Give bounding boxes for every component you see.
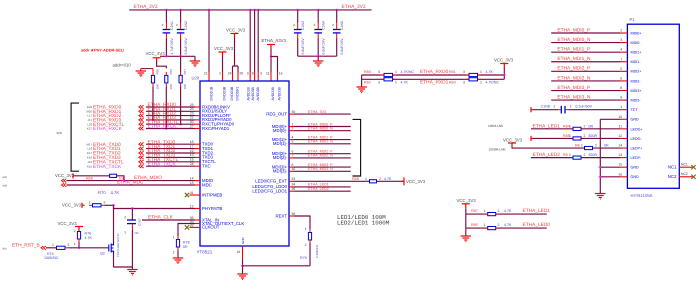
svg-text:11: 11 [619, 124, 623, 128]
pin 5 stub (MDI[1]-) [289, 143, 294, 145]
wire C1N3 bottom [297, 39, 299, 57]
svg-text:3: 3 [620, 38, 622, 42]
node R68-MDIO junction [123, 179, 125, 181]
svg-text:1: 1 [74, 242, 76, 246]
wire R65 to RXD3 row [152, 86, 154, 120]
pin 13 stub (MDC) [195, 184, 200, 186]
power VCC_3V3 T (DVDDR) [219, 52, 227, 57]
svg-text:2: 2 [124, 216, 126, 220]
power VCC_3V3 T (DVDD3B) [231, 34, 239, 39]
wire VCC to DVDDR pin [222, 57, 224, 73]
node strap row1 junction [503, 74, 505, 76]
svg-text:R65: R65 [156, 69, 160, 75]
resistor R88 4.7K [370, 180, 377, 183]
svg-text:VCC_3V3: VCC_3V3 [62, 202, 82, 207]
svg-text:16: 16 [279, 72, 283, 76]
svg-text:3: 3 [378, 70, 380, 74]
wire C1N1 bottom [165, 39, 167, 57]
svg-text:ETHA_MDI3_N: ETHA_MDI3_N [557, 95, 591, 101]
svg-text:ETHA_MDI3_P: ETHA_MDI3_P [557, 85, 590, 91]
svg-text:MDI0+: MDI0+ [631, 31, 642, 35]
svg-text:11: 11 [266, 72, 270, 76]
svg-text:AVDD0B: AVDD0B [271, 86, 275, 100]
node rail-C1N5 junction [336, 9, 338, 11]
wire C1N1 drop [165, 10, 167, 23]
wire ETHA_3V3 top rail [129, 9, 371, 11]
svg-text:ETHA_MDI0_N: ETHA_MDI0_N [557, 37, 591, 43]
pin 14 stub (MDIO) [195, 180, 200, 182]
svg-text:C1N3: C1N3 [301, 21, 305, 30]
pin 33 stub (LED0/CFG_EXT) [289, 180, 294, 182]
ground strap rows [356, 87, 366, 91]
wire ETHA_CLK [142, 219, 195, 221]
no-connect X NC1 [691, 165, 695, 169]
power VCC_3V3 bar (LEDG-) [531, 136, 534, 141]
svg-text:33: 33 [292, 177, 296, 181]
capacitor C1N1 [163, 30, 171, 33]
wire rail to AVDD pin 9 [257, 10, 259, 72]
svg-text:1: 1 [569, 153, 571, 157]
wire R74 to Q2 gate [69, 247, 109, 249]
wire TCT left [534, 109, 559, 111]
svg-text:15: 15 [190, 153, 194, 157]
node rail drop AVDD junction 3 [257, 9, 259, 11]
resistor R74 100K/NC [57, 246, 66, 249]
svg-text:8: 8 [620, 86, 622, 90]
svg-text:6.8uF/16V: 6.8uF/16V [301, 38, 305, 55]
svg-text:22R: 22R [57, 131, 63, 135]
svg-text:MDI[2]-: MDI[2]- [273, 155, 288, 160]
ground Q2/C1N7 [127, 270, 137, 274]
node rail drop AVDD junction 2 [253, 9, 255, 11]
svg-text:ETHA_LED1: ETHA_LED1 [523, 208, 551, 214]
wire rail to AVDD pin 3 [249, 10, 251, 72]
wire LEDY- row [531, 157, 621, 159]
svg-text:1: 1 [581, 143, 583, 147]
svg-text:ETHA_MDI2_N: ETHA_MDI2_N [557, 75, 591, 81]
resistor R85 820R [573, 137, 581, 140]
svg-text:2: 2 [219, 72, 221, 76]
svg-text:LEDG-: LEDG- [631, 137, 643, 141]
node GND pin15 junction [599, 166, 601, 168]
ground IC [237, 274, 247, 278]
svg-text:1: 1 [570, 104, 572, 108]
wire ETHA_RXD3 to IC [146, 119, 195, 121]
svg-text:13: 13 [190, 181, 194, 185]
svg-text:TXC: TXC [202, 164, 211, 169]
wire ETHA_LED1 row [466, 213, 547, 215]
svg-text:30: 30 [292, 110, 296, 114]
svg-text:820R: 820R [589, 153, 598, 157]
svg-text:RXC/PHYAD1: RXC/PHYAD1 [202, 126, 230, 131]
no-connect X on INT/PMEB [185, 193, 189, 197]
power VCC_3V3 T (strap pulls) [153, 58, 161, 63]
svg-text:C1N8: C1N8 [541, 104, 550, 108]
svg-text:1: 1 [484, 223, 486, 227]
node cluster2 bus junction [317, 55, 319, 57]
svg-text:DVDD1B: DVDD1B [209, 86, 213, 100]
ground cluster1 [190, 61, 200, 65]
svg-text:MDI[0]-: MDI[0]- [273, 128, 288, 133]
svg-text:U20: U20 [192, 76, 200, 81]
ground symbol strap R65 [136, 71, 146, 75]
node R76 junction [78, 247, 80, 249]
P1 pin 9 stub (MDI3-) [621, 99, 628, 101]
port chevron ETHA_TXD1 [139, 147, 144, 151]
power VCC_3V3 bar (reset) [82, 203, 85, 208]
svg-text:K27: K27 [87, 127, 92, 131]
svg-text:2: 2 [173, 251, 175, 255]
svg-text:R87: R87 [471, 209, 478, 213]
wire ETHA_TXCK to IC [146, 165, 195, 167]
svg-text:MDI[1]-: MDI[1]- [273, 141, 288, 146]
svg-text:J16: J16 [87, 160, 92, 164]
wire VCC to strap rows [503, 68, 505, 79]
wire A3V3 to pin 11 [270, 49, 272, 72]
P1 pin 4 stub (MDI1+) [621, 51, 628, 53]
svg-text:4.7K: 4.7K [111, 190, 120, 195]
no-connect X NC2 [691, 175, 695, 179]
svg-text:AVDD1B: AVDD1B [246, 86, 250, 100]
wire ETHA_LED1 [294, 186, 351, 188]
svg-text:NC2: NC2 [681, 172, 688, 176]
svg-text:HY911105A: HY911105A [631, 193, 653, 198]
pin 20 stub (RXCTL/PHYAD0) [195, 123, 200, 125]
svg-text:ETHA_LED0: ETHA_LED0 [523, 222, 551, 228]
wire ETHA_MDI3_P (to P1) [551, 90, 621, 92]
svg-text:ETHA_RXCK: ETHA_RXCK [148, 124, 178, 130]
svg-text:2: 2 [104, 200, 106, 204]
svg-text:C1N2: C1N2 [184, 21, 188, 30]
svg-text:CLKOUT: CLKOUT [202, 225, 220, 230]
svg-text:VCC_3V3: VCC_3V3 [58, 221, 78, 226]
svg-text:4: 4 [620, 48, 622, 52]
pin 6 stub (MDI[2]+) [289, 153, 294, 155]
svg-text:VCC_3V3: VCC_3V3 [457, 198, 477, 203]
resistor R83 4.7K/NC [469, 78, 478, 81]
svg-text:2: 2 [595, 143, 597, 147]
svg-text:3: 3 [247, 72, 249, 76]
svg-text:2: 2 [292, 127, 294, 131]
svg-text:1: 1 [52, 243, 54, 247]
P1 pin 13 stub (LEDY-) [621, 157, 628, 159]
node rail-C1N2 junction [179, 9, 181, 11]
svg-text:C1N1: C1N1 [170, 21, 174, 30]
wire to ground cluster2 [317, 56, 319, 60]
wire cluster2 ground bus [298, 55, 337, 57]
pin 10 stub (MDI[3]-) [289, 170, 294, 172]
wire C1N5 bottom [336, 39, 338, 57]
svg-text:ETHA_RXD0: ETHA_RXD0 [420, 69, 449, 75]
svg-text:13: 13 [618, 153, 622, 157]
wire ETHA_RXCTL to IC [146, 123, 195, 125]
wire bottom rail to ground [114, 266, 133, 268]
P1 pin 11 stub (LEDG+) [621, 128, 628, 130]
svg-text:K15: K15 [87, 164, 92, 168]
svg-text:ETHA_MDI0_N: ETHA_MDI0_N [308, 127, 333, 131]
bus bracket (MDI) [353, 119, 361, 176]
node GND junction [241, 265, 243, 267]
capacitor C1N8 0.1uF/50V [561, 106, 565, 114]
svg-text:14: 14 [618, 144, 622, 148]
svg-text:10K: 10K [183, 84, 187, 89]
wire LEDG- row [534, 137, 621, 139]
pin 30 stub (REG_OUT) [289, 113, 294, 115]
port chevron ETHA_MDC [62, 183, 67, 187]
pin 36 stub (XTAL_IN) [195, 219, 200, 221]
no-connect X on CLKOUT [185, 225, 189, 229]
pin 38 stub (REXT) [289, 215, 294, 217]
resistor R79 2.49K/1% [308, 233, 311, 241]
port chevron ETH_RST_B [41, 246, 46, 250]
svg-text:35: 35 [292, 187, 296, 191]
wire ETHA_MDI2_P [294, 153, 351, 155]
wire VCC to R66 [157, 62, 167, 68]
svg-text:28: 28 [239, 72, 243, 76]
wire GND pin to junction [242, 260, 244, 266]
wire LEDY+ row [512, 147, 621, 150]
wire ETHA_TXCTL to IC [146, 161, 195, 163]
svg-text:1: 1 [569, 124, 571, 128]
svg-text:A10: A10 [2, 247, 7, 250]
wire C1N7 bottom [131, 224, 133, 230]
wire ETHA_MDI3_N (to P1) [551, 99, 621, 101]
svg-text:MDI1-: MDI1- [631, 60, 642, 64]
svg-text:6: 6 [620, 76, 622, 80]
svg-text:DVDD3B: DVDD3B [230, 86, 234, 100]
capacitor C1N3 [294, 30, 302, 33]
wire LED2 row to ground [465, 228, 467, 235]
resistor R86b 820R [573, 156, 581, 159]
wire GND junction to ground [242, 266, 244, 274]
svg-text:5: 5 [292, 140, 294, 144]
node C1N1 bus junction [165, 55, 167, 57]
wire XTAL_OUT to R78 [178, 224, 195, 237]
svg-text:10: 10 [618, 115, 622, 119]
wire GND pin10 to bus [600, 118, 620, 120]
svg-text:LED2/CFG_LDO1: LED2/CFG_LDO1 [252, 189, 287, 194]
wire ETHA_MDC [67, 184, 196, 186]
wire reset node down to Q2 drain [113, 205, 115, 242]
svg-text:A06: A06 [2, 176, 7, 179]
svg-text:2: 2 [584, 153, 586, 157]
svg-text:9: 9 [620, 96, 622, 100]
wire to ground cluster1 [194, 56, 196, 60]
svg-text:21: 21 [204, 72, 208, 76]
svg-text:ETHA_3V3: ETHA_3V3 [134, 4, 158, 10]
wire ETHA_TXD2 to IC [146, 152, 195, 154]
resistor R68 10K (MDIO pull-up) [110, 174, 117, 177]
svg-text:10: 10 [292, 167, 296, 171]
node GND pin16 junction [599, 176, 601, 178]
svg-text:1: 1 [89, 200, 91, 204]
power VCC_3V3 T (strap rows) [500, 64, 508, 69]
wire RXD0 strap row [362, 74, 505, 76]
svg-text:1: 1 [620, 105, 622, 109]
svg-text:2: 2 [305, 243, 307, 247]
svg-text:ETHA_TXCK: ETHA_TXCK [148, 161, 177, 167]
pin 8 stub (MDI[3]+) [289, 166, 294, 168]
pin 26 stub (RXD0B/LINKV) [195, 106, 200, 108]
port chevron ETHA_RXCK [139, 127, 144, 131]
node R66-RXCK junction [165, 127, 167, 129]
svg-text:0.1uF/50V: 0.1uF/50V [575, 104, 592, 108]
P1 pin 1 stub (TCT) [621, 109, 628, 111]
port chevron ETHA_TXCTL [139, 160, 144, 164]
svg-text:3: 3 [463, 70, 465, 74]
P1 pin 16 stub (GND) [621, 176, 628, 178]
P1 pin 6 stub (MDI2-) [621, 80, 628, 82]
wire R76 to gate node [78, 243, 80, 248]
svg-text:R74: R74 [47, 252, 54, 256]
wire LED0 to R88 [294, 180, 370, 182]
svg-text:K16: K16 [87, 156, 92, 160]
wire GND pin15 [600, 166, 620, 168]
svg-text:K17: K17 [87, 151, 92, 155]
pin 15 stub (TXD3) [195, 156, 200, 158]
svg-text:MDI[3]-: MDI[3]- [273, 169, 288, 174]
P1 pin 7 stub (MDI1-) [621, 61, 628, 63]
svg-text:AVDD3B: AVDD3B [251, 86, 255, 100]
wire VCC to R68 [76, 175, 110, 177]
node rail-C1N1 junction [165, 9, 167, 11]
wire P1 ground bus vertical [599, 119, 601, 193]
node rail drop AVDD junction 1 [249, 9, 251, 11]
svg-text:820R: 820R [589, 134, 598, 138]
wire TCT right [569, 109, 621, 111]
svg-text:MDI0-: MDI0- [631, 41, 642, 45]
P1 pin 10 stub (GND) [621, 118, 628, 120]
svg-text:ETHA_RXD1: ETHA_RXD1 [420, 80, 449, 86]
svg-text:12: 12 [618, 134, 622, 138]
resistor R81 4.7K [469, 73, 478, 76]
svg-text:ETHA_MDI0_P: ETHA_MDI0_P [557, 27, 590, 33]
wire ETHA_LED2 [294, 190, 351, 192]
wire rail to AVDD pin 8 [254, 10, 256, 72]
svg-text:2.49K/1%: 2.49K/1% [315, 245, 319, 258]
svg-text:LED2/LED1 1000M: LED2/LED1 1000M [337, 220, 390, 227]
wire ETHA_MDIO [67, 180, 196, 182]
svg-text:0R: 0R [589, 124, 594, 128]
port chevron ETHA_TXD3 [139, 156, 144, 160]
wire ETHA_MDI0_P (to P1) [551, 32, 621, 34]
power VCC_3V3 T (R76) [75, 227, 83, 232]
node R67-RXCTL junction [179, 123, 181, 125]
wire GND pin16 [600, 176, 620, 178]
pin 31 stub (INT/PMEB) [190, 194, 201, 196]
svg-text:VCC_3V3: VCC_3V3 [55, 173, 75, 178]
resistor R86 4.7K [488, 227, 496, 230]
wire rail to DVDD1B pin 21 [208, 10, 210, 72]
svg-text:VCC_3V3: VCC_3V3 [226, 28, 246, 33]
svg-text:VCC_3V3: VCC_3V3 [406, 179, 426, 184]
svg-text:4.7K/NC: 4.7K/NC [401, 70, 415, 74]
wire ground to R65 top [141, 68, 153, 70]
wire RXD1 strap row [362, 78, 505, 80]
svg-text:9: 9 [260, 72, 262, 76]
resistor R84 0R [573, 127, 581, 130]
svg-text:7: 7 [292, 154, 294, 158]
pin 12 stub (PHYRSTB) [195, 208, 200, 210]
port chevron ETHA_RXD1 [139, 110, 144, 114]
wire C1N2 bottom [180, 39, 182, 57]
svg-text:addr=010: addr=010 [113, 63, 132, 68]
wire ETHA_MDI2_N [294, 157, 351, 159]
pin 33 stub (CLKOUT) [190, 226, 201, 228]
svg-text:DVDDR1: DVDDR1 [235, 86, 239, 100]
wire cluster1 bus to R67 top [180, 56, 182, 72]
svg-text:AVDD3B: AVDD3B [256, 86, 260, 100]
svg-text:4.7K: 4.7K [504, 223, 512, 227]
resistor R76 4.7K [77, 232, 80, 240]
pin 34 stub (LED1/CFG_LDO0) [289, 186, 294, 188]
svg-text:14: 14 [190, 176, 194, 180]
svg-text:41: 41 [237, 250, 241, 254]
power VCC_3V3 T (LEDY+) [508, 143, 516, 148]
svg-text:C1N5: C1N5 [340, 21, 344, 30]
pin 35 stub (XTAL_OUT) [195, 223, 200, 225]
svg-text:5: 5 [620, 67, 622, 71]
svg-text:R88: R88 [352, 177, 359, 181]
wire C1N5 drop [336, 10, 338, 23]
svg-text:PHYRSTB: PHYRSTB [202, 206, 222, 211]
pin stub 24 [232, 72, 234, 81]
resistor R71 (reset pull-up) [93, 204, 102, 207]
capacitor C1N4 [314, 30, 322, 33]
wire ETHA_MDI0_N [294, 130, 351, 132]
svg-text:4.7uF/16V: 4.7uF/16V [170, 38, 174, 55]
pin 23 stub (RXD2/PLLOFF) [195, 115, 200, 117]
power VCC_3V3 T (LED pulls) [462, 204, 470, 209]
svg-text:2: 2 [584, 124, 586, 128]
wire ETHA_RXD1 to IC [146, 110, 195, 112]
svg-text:1: 1 [173, 236, 175, 240]
op-amp? no - IC U20 YT8521 body [200, 81, 289, 246]
resistor R80 4.7K/NC [384, 73, 393, 76]
wire ETHA_MDI1_N [294, 143, 351, 145]
svg-text:GND: GND [241, 237, 245, 245]
svg-text:R66: R66 [169, 69, 173, 75]
ground cluster2 [313, 61, 323, 65]
svg-text:1: 1 [569, 134, 571, 138]
transistor Q2 [109, 243, 114, 254]
svg-text:GND: GND [631, 118, 640, 122]
power VCC_3V3 bar (MDIO pull) [73, 173, 76, 178]
port chevron ETHA_TXD0 [139, 142, 144, 146]
svg-text:R80: R80 [364, 70, 371, 74]
svg-text:MDI3+: MDI3+ [631, 89, 642, 93]
wire C1N4 drop [317, 10, 319, 23]
wire R66 to RXCK row [165, 86, 167, 128]
node R65-RXD3 junction [152, 119, 154, 121]
svg-text:2: 2 [498, 209, 500, 213]
wire LED1 row to LED2 row vertical [465, 214, 467, 228]
svg-text:1: 1 [395, 70, 397, 74]
wire ETHA_RXCK to IC [146, 128, 195, 130]
node C1N7 junction [131, 207, 133, 209]
bus bracket (left) [71, 103, 79, 171]
svg-text:R79: R79 [300, 256, 307, 260]
svg-text:6.8uF/16V: 6.8uF/16V [184, 38, 188, 55]
P1 pin 14 stub (LEDY+) [621, 147, 628, 149]
pin 18 stub (TXD0) [195, 143, 200, 145]
svg-text:A08: A08 [2, 185, 7, 188]
svg-text:1: 1 [124, 231, 126, 235]
node A3V3 branch junction [270, 55, 272, 57]
svg-text:LEDY-: LEDY- [631, 156, 642, 160]
wire ETHA_MDI0_N (to P1) [551, 42, 621, 44]
wire ETHA_LED2 row [466, 227, 547, 229]
